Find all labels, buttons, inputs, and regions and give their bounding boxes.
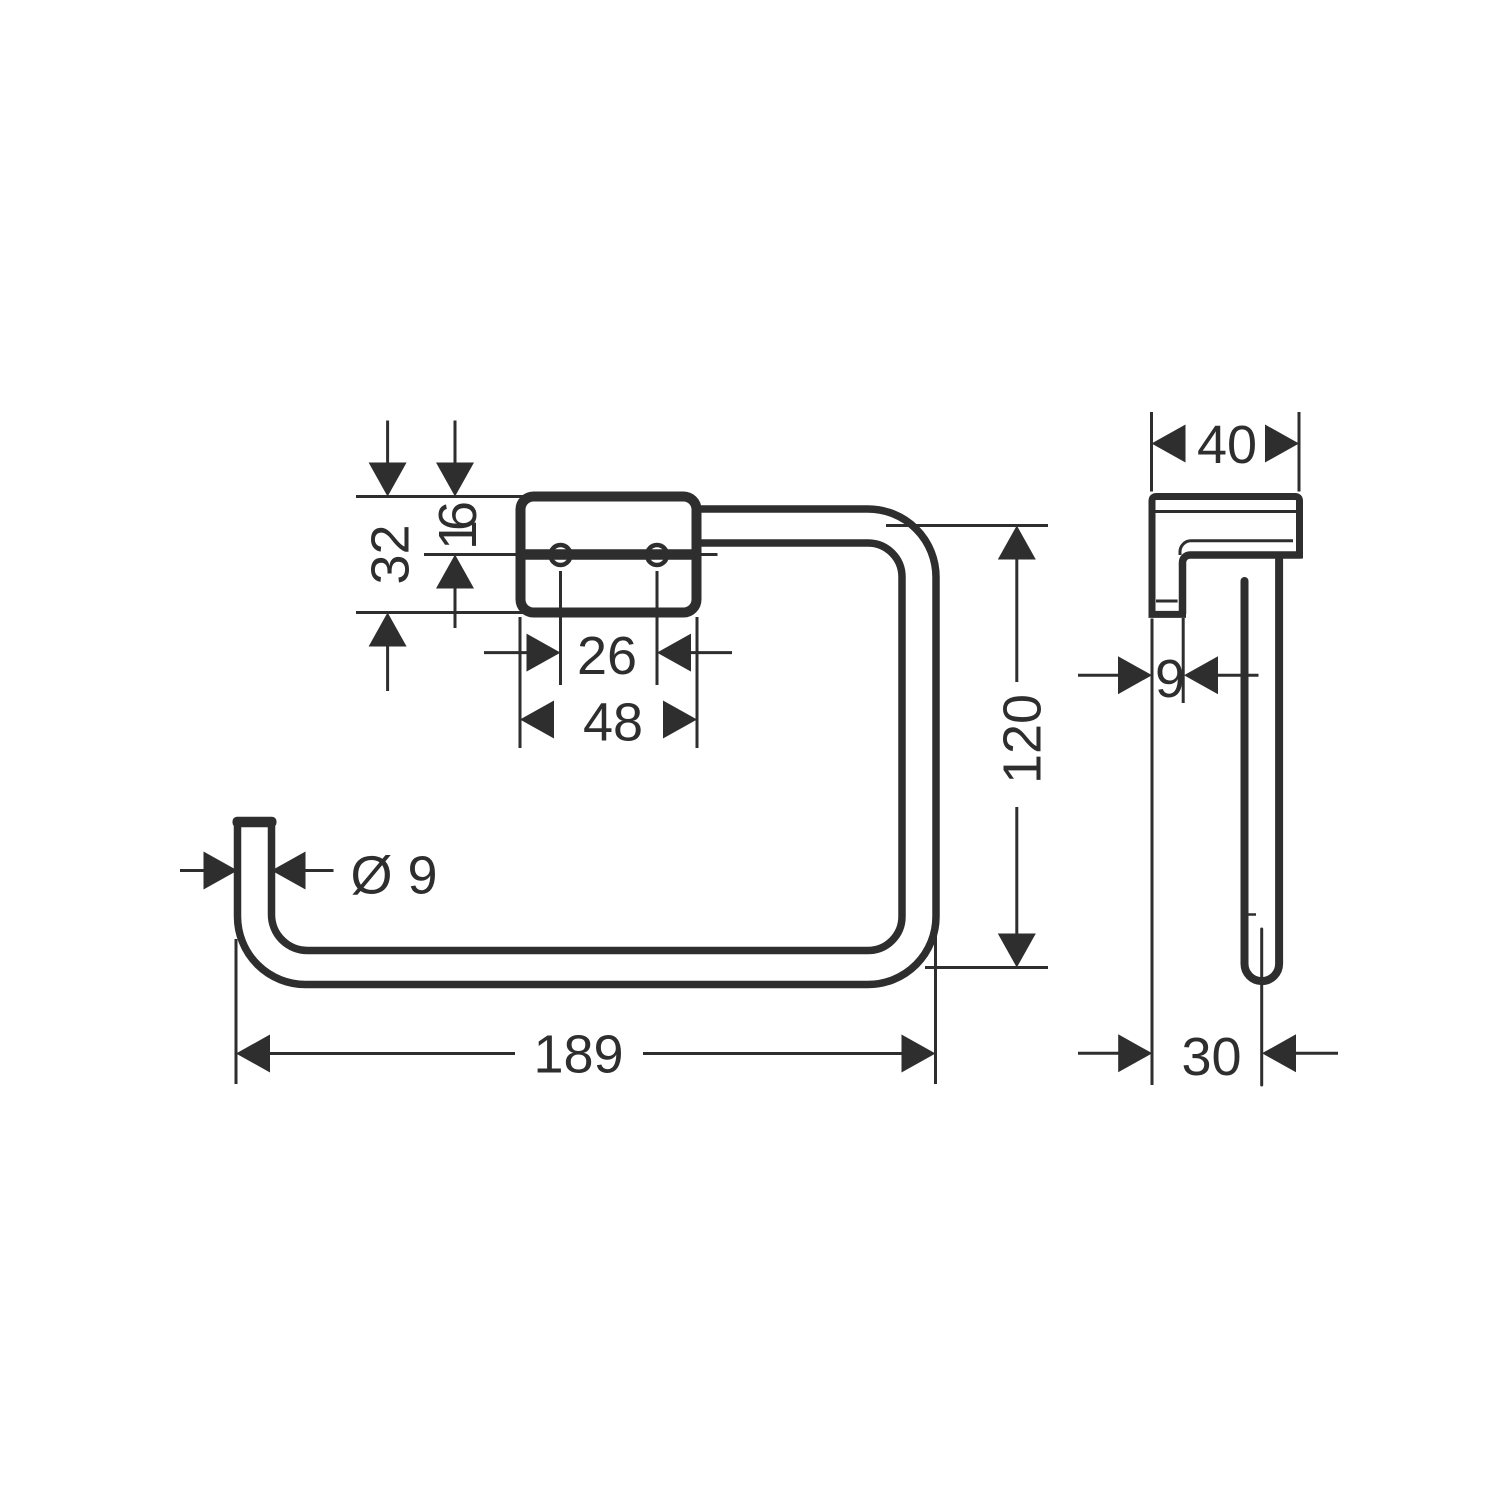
screw hole right [647, 545, 667, 565]
dim 189 line right [643, 1052, 902, 1055]
extension line top (32/16 upper ref) [356, 495, 523, 498]
arrow 32 bottom (up) [369, 613, 407, 647]
svg-text:32: 32 [361, 524, 421, 584]
arrow 16 bottom (up) [436, 555, 474, 589]
extension line 189 left [235, 939, 238, 1084]
svg-text:40: 40 [1197, 415, 1257, 475]
arrow 9 right (left-pointing) [1184, 656, 1218, 694]
arrow 16 top (down) [436, 463, 474, 497]
extension line 40 left [1150, 412, 1153, 492]
svg-text:48: 48 [583, 693, 643, 753]
rod (ring side view) [1245, 560, 1280, 982]
arrow 48 left (left-pointing) [520, 701, 554, 739]
arrow 40 right (right-pointing) [1265, 425, 1299, 463]
svg-text:Ø 9: Ø 9 [350, 846, 437, 906]
dim 32 upper tail [386, 421, 389, 464]
arrow 120 bottom (down) [998, 934, 1036, 968]
arrow 30 left (right-pointing) [1118, 1034, 1152, 1072]
extension line 9 right [1182, 618, 1185, 703]
dim 120 line upper [1015, 559, 1018, 682]
towel ring inner contour [272, 543, 903, 951]
extension line 189 right [934, 915, 937, 1084]
arrow dia9 right (left-pointing) [272, 852, 306, 890]
dim dia9 right tail [305, 869, 334, 872]
arrow 40 left (left-pointing) [1152, 425, 1186, 463]
extension line 48 right [696, 617, 699, 748]
svg-text:30: 30 [1181, 1027, 1241, 1087]
stub end cap [233, 817, 277, 828]
bracket inner line [1156, 510, 1297, 513]
arrow 26 right (left-pointing) [657, 634, 691, 672]
hook arm bottom and vertical [1183, 555, 1302, 614]
dim 9 left tail [1078, 674, 1119, 677]
dim 16 upper tail [454, 421, 457, 464]
extension line hole left [559, 571, 562, 685]
dim 26 right tail [691, 651, 733, 654]
hook arm top contour [1180, 541, 1293, 555]
arrow 48 right (right-pointing) [663, 701, 697, 739]
dim 9 right tail [1217, 674, 1259, 677]
extension line middle right tick [699, 553, 718, 556]
dim 120 line lower [1015, 807, 1018, 934]
arrow 32 top (down) [369, 463, 407, 497]
extension line middle (16 lower ref) [424, 553, 519, 556]
arrow 26 left (right-pointing) [527, 634, 561, 672]
arrow 189 right (right-pointing) [902, 1035, 936, 1073]
hook lip bottom [1149, 611, 1187, 618]
towel ring outer contour [238, 509, 937, 985]
arrow 9 left (right-pointing) [1118, 656, 1152, 694]
extension line 120 bottom [925, 966, 1048, 969]
arrow dia9 left (right-pointing) [204, 852, 238, 890]
bracket outline (side view plate) [1152, 497, 1300, 618]
dim dia9 left tail [180, 869, 204, 872]
dim 189 line left [269, 1052, 515, 1055]
arrow 189 left (left-pointing) [236, 1035, 270, 1073]
rod seam tick [1242, 913, 1256, 916]
extension line bottom (32 lower ref) [356, 611, 523, 614]
dim 30 right tail [1295, 1052, 1339, 1055]
svg-text:120: 120 [993, 694, 1053, 784]
dim 32 lower tail [386, 646, 389, 691]
extension line 120 top [886, 524, 1048, 527]
extension line 48 left [519, 617, 522, 748]
extension line rod center (30 right) [1260, 929, 1263, 1085]
extension line wall plane (9/30 left) [1151, 619, 1154, 1086]
svg-text:1: 1 [428, 520, 488, 550]
extension line 40 right [1298, 412, 1301, 492]
svg-text:9: 9 [1155, 649, 1185, 709]
dim 16 lower tail [454, 588, 457, 628]
plate step bar [524, 549, 694, 560]
svg-text:26: 26 [577, 626, 637, 686]
arrow 30 right (left-pointing) [1262, 1034, 1296, 1072]
arrow 120 top (up) [998, 526, 1036, 560]
dim 30 left tail [1078, 1052, 1120, 1055]
dim 26 left tail [484, 651, 527, 654]
extension line hole right [656, 571, 659, 685]
svg-text:189: 189 [533, 1025, 623, 1085]
wall plate [521, 497, 697, 613]
screw hole left [551, 545, 571, 565]
hook lip inner line [1156, 600, 1178, 603]
